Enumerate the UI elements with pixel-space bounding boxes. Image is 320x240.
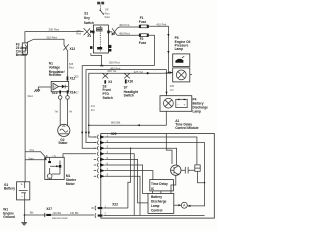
- svg-text:X22: X22: [112, 203, 118, 207]
- svg-text:B: B: [46, 154, 48, 158]
- svg-text:Control: Control: [151, 209, 162, 213]
- svg-text:310 Red: 310 Red: [46, 36, 57, 40]
- svg-text:130 Blk: 130 Blk: [70, 211, 79, 215]
- wire A1 pin8 route: [105, 176, 140, 215]
- connector X13: [52, 90, 62, 99]
- svg-text:400 Red: 400 Red: [119, 32, 130, 36]
- svg-text:X27: X27: [46, 207, 52, 211]
- switch S3 front PTO: [102, 73, 112, 100]
- wire 330 Red: [25, 28, 84, 43]
- svg-text:Lamp: Lamp: [193, 109, 202, 113]
- stator wires Yel: [54, 94, 72, 126]
- svg-text:425 Yel: 425 Yel: [107, 69, 117, 73]
- svg-text:Harness lead: Harness lead: [52, 216, 68, 220]
- circuit breaker F3: [16, 42, 29, 57]
- wire A1 pin4 route: [105, 154, 135, 216]
- svg-text:330 Red: 330 Red: [48, 28, 59, 32]
- svg-text:Key: Key: [84, 16, 90, 20]
- X20 pin 2: [94, 139, 109, 145]
- starter motor M1: [45, 154, 77, 186]
- wire A1 pin7 route: [105, 171, 153, 180]
- wire key switch bottom link: [91, 53, 103, 66]
- module A1 label: [175, 119, 199, 130]
- diode VR in A1: [195, 165, 206, 184]
- svg-text:Control Module: Control Module: [175, 126, 199, 130]
- svg-text:500 Red: 500 Red: [109, 61, 120, 65]
- wire A1 pin6 route: [105, 165, 148, 194]
- wire battery feed Red: [25, 54, 33, 182]
- key switch S1: [84, 2, 112, 53]
- svg-text:400: 400: [170, 84, 175, 88]
- svg-text:X14: X14: [70, 91, 76, 95]
- svg-text:X3: X3: [108, 80, 112, 84]
- svg-text:800 Blk: 800 Blk: [111, 120, 121, 124]
- wire F2 to bus A: [149, 35, 155, 65]
- wire A1 pin3 route to X22 and transistor: [105, 148, 177, 209]
- wire A1 pin1 route: [105, 137, 197, 165]
- X20 pin 5: [94, 156, 109, 162]
- wire transistor to lamp control: [171, 175, 176, 193]
- svg-text:Fuse: Fuse: [139, 41, 147, 45]
- lamp P4 battery discharge: [160, 96, 208, 114]
- svg-text:Discharge: Discharge: [151, 200, 167, 204]
- svg-text:400 Pnk: 400 Pnk: [119, 23, 130, 27]
- svg-text:S1: S1: [84, 12, 88, 16]
- svg-text:X2: X2: [111, 32, 115, 36]
- svg-text:X13: X13: [52, 91, 58, 95]
- svg-text:X20: X20: [111, 132, 117, 136]
- svg-text:605: 605: [69, 62, 74, 66]
- ground at N1: [34, 87, 51, 92]
- svg-text:Rectifier: Rectifier: [49, 73, 63, 77]
- svg-text:Yel: Yel: [170, 88, 174, 92]
- wire X20 pin4 to starter: [63, 154, 94, 158]
- svg-text:Battery: Battery: [4, 186, 15, 190]
- time delay IC box: [150, 180, 174, 194]
- svg-text:U: U: [54, 85, 56, 89]
- wire 400 Pnk: [117, 23, 139, 28]
- X22 pin 2: [95, 211, 205, 217]
- capacitor C in A1: [181, 167, 195, 174]
- wire 500 Red bus A: [81, 61, 154, 149]
- connector X2: [108, 28, 117, 36]
- wire Start to starter: [25, 156, 47, 160]
- svg-text:+: +: [21, 182, 23, 186]
- svg-text:Pos: Pos: [30, 148, 35, 152]
- svg-text:Yel: Yel: [54, 110, 58, 114]
- svg-text:I S: I S: [53, 154, 56, 158]
- wire 310 Red: [27, 36, 76, 82]
- svg-text:Start: Start: [104, 15, 110, 19]
- wire Pos to starter: [25, 148, 46, 160]
- battery discharge lamp control box: [148, 194, 174, 214]
- svg-text:Motor: Motor: [66, 182, 76, 186]
- fuse F2: [139, 34, 149, 45]
- wire 800 Blk: [88, 111, 166, 126]
- svg-text:Ground: Ground: [3, 215, 15, 219]
- X20 pin 1: [94, 133, 109, 139]
- transistor Q1: [171, 165, 181, 175]
- svg-text:Start: Start: [28, 156, 34, 160]
- svg-text:Lamp: Lamp: [151, 204, 160, 208]
- wire 450 Pnk bus B: [85, 66, 167, 142]
- svg-text:Battery: Battery: [151, 195, 162, 199]
- svg-text:Red: Red: [28, 94, 34, 98]
- svg-text:Pur: Pur: [91, 108, 95, 112]
- wire labels 411 Pur: [74, 74, 95, 112]
- svg-text:Switch: Switch: [124, 94, 134, 98]
- switch S7 headlight: [124, 73, 139, 97]
- svg-text:Run: Run: [105, 12, 110, 16]
- svg-text:S7: S7: [124, 85, 128, 89]
- wire P4 into A1 transistor: [166, 134, 172, 165]
- wire 400 Red: [117, 32, 139, 36]
- svg-text:−: −: [21, 195, 23, 199]
- X22 pin 1: [91, 204, 128, 210]
- X20 pin 4: [94, 150, 109, 156]
- wire 400 Yel to P4: [165, 70, 174, 96]
- connector X1: [76, 28, 93, 38]
- svg-text:Switch: Switch: [84, 21, 94, 25]
- svg-text:Switch: Switch: [103, 96, 113, 100]
- svg-text:Stator: Stator: [58, 141, 68, 145]
- wire 410 Pnk: [149, 23, 170, 73]
- connector X14: [66, 90, 76, 99]
- svg-text:Red: Red: [69, 66, 74, 70]
- stator G2: [58, 124, 70, 145]
- lamp P5 engine oil pressure: [173, 36, 192, 82]
- svg-text:Red: Red: [76, 31, 81, 35]
- connector X27: [44, 207, 79, 220]
- wire A1 pin2 route: [105, 143, 205, 207]
- fuse F1: [139, 16, 149, 28]
- connector X20: [111, 132, 117, 136]
- voltage regulator N1: [49, 62, 76, 92]
- connector X22: [112, 203, 118, 207]
- svg-text:Off: Off: [105, 8, 109, 12]
- wire 425 Yel bus C: [88, 69, 173, 137]
- X20 pin 3: [94, 145, 109, 151]
- svg-text:411: 411: [91, 104, 96, 108]
- svg-text:X1: X1: [87, 34, 91, 38]
- X20 pin 7: [94, 167, 109, 173]
- X20 pin 8: [94, 173, 109, 179]
- X20 pin 6: [94, 161, 109, 167]
- svg-text:130 Blk: 130 Blk: [52, 211, 61, 215]
- svg-text:Time Delay: Time Delay: [151, 182, 168, 186]
- wire ground to X22: [24, 211, 94, 215]
- battery G1: [4, 182, 30, 200]
- wire A1 pin5 route: [105, 159, 148, 203]
- svg-text:425 Yel: 425 Yel: [134, 70, 144, 74]
- svg-text:X12: X12: [70, 76, 76, 80]
- svg-text:Fuse: Fuse: [139, 20, 147, 24]
- ground W1: [3, 200, 27, 225]
- svg-text:Yel: Yel: [69, 110, 73, 114]
- module A1 box: [101, 134, 215, 219]
- svg-text:X16: X16: [127, 80, 133, 84]
- ammeter A: [174, 202, 188, 208]
- svg-text:410 Pnk: 410 Pnk: [156, 23, 167, 27]
- svg-text:Lamp: Lamp: [175, 47, 184, 51]
- svg-text:X12: X12: [70, 47, 76, 51]
